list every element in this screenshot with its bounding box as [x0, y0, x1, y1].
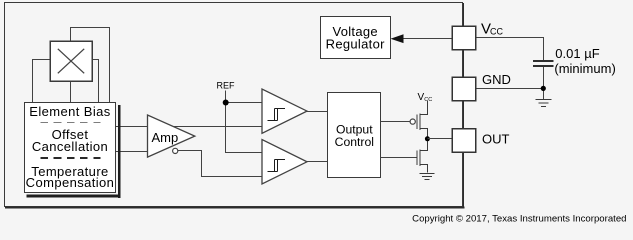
svg-text:Copyright © 2017, Texas Instru: Copyright © 2017, Texas Instruments Inco…: [412, 214, 626, 225]
svg-text:CC: CC: [490, 27, 503, 37]
svg-text:Cancellation: Cancellation: [32, 139, 108, 154]
svg-text:Control: Control: [335, 135, 374, 149]
svg-text:CC: CC: [424, 97, 432, 103]
svg-text:0.01 µF: 0.01 µF: [555, 46, 599, 61]
svg-text:Regulator: Regulator: [326, 37, 385, 52]
svg-text:(minimum): (minimum): [554, 61, 615, 76]
svg-text:OUT: OUT: [482, 132, 510, 147]
svg-text:Compensation: Compensation: [26, 175, 115, 190]
svg-text:Amp: Amp: [152, 130, 179, 145]
svg-text:REF: REF: [217, 80, 236, 90]
svg-text:Element Bias: Element Bias: [29, 104, 110, 119]
svg-text:GND: GND: [482, 72, 511, 87]
